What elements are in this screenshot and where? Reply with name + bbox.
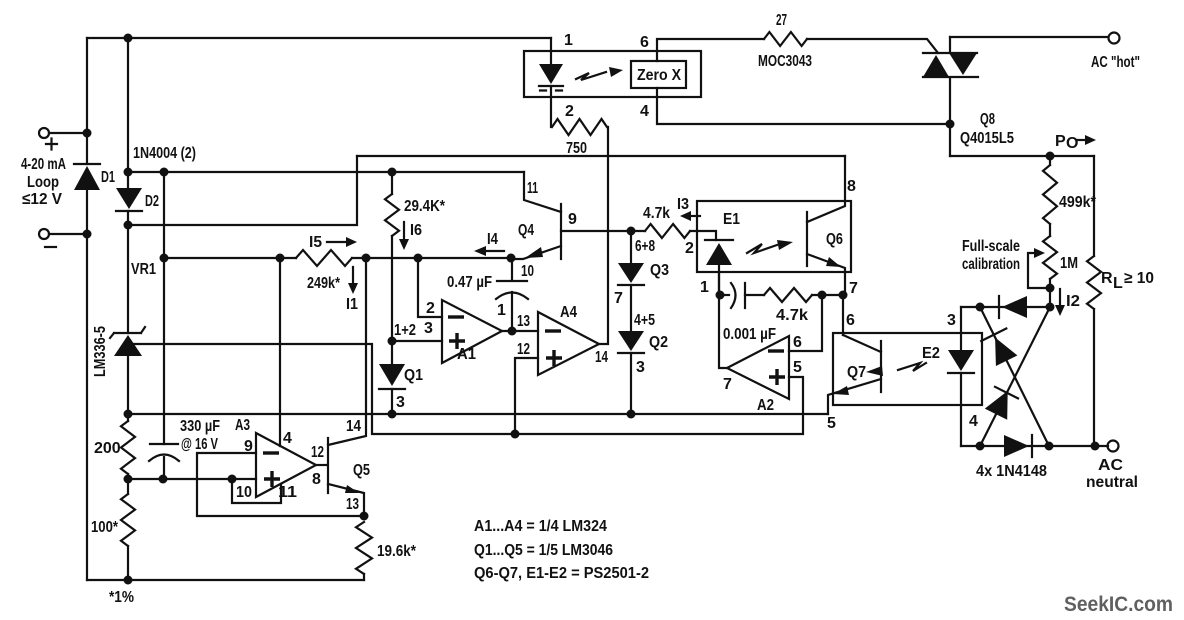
resistor 27 <box>764 32 807 46</box>
wire A1 plus input <box>392 340 442 342</box>
label 4-20 mA Loop <=12 V <box>21 156 66 208</box>
wire 4.7k to E1 pin2 <box>690 231 716 240</box>
svg-text:D1: D1 <box>101 169 115 186</box>
svg-text:AC: AC <box>1098 457 1123 474</box>
svg-text:A3: A3 <box>235 417 250 434</box>
svg-text:Q8: Q8 <box>980 111 995 128</box>
wire E2 pin4 to bridge <box>961 445 980 447</box>
label RL >= 10 <box>1101 270 1154 292</box>
svg-text:I2: I2 <box>1066 293 1080 310</box>
wire A1 minus input drop <box>418 258 442 317</box>
wire E1 pin1 node column / A2 output <box>719 272 727 368</box>
svg-text:12: 12 <box>517 341 530 358</box>
op-amp A4 <box>538 312 599 375</box>
svg-text:4.7k: 4.7k <box>643 205 670 222</box>
wire A3 pin10-11 loop <box>232 479 281 503</box>
svg-text:330 µF: 330 µF <box>180 418 220 435</box>
svg-text:5: 5 <box>827 415 836 432</box>
wire 100 to bottom rail <box>127 546 129 580</box>
label I3 and arrow <box>677 196 700 221</box>
svg-text:7: 7 <box>849 280 858 297</box>
triac Q8 <box>923 37 978 156</box>
wire 27 to triac gate <box>807 39 938 53</box>
capacitor 330uF curved plate <box>149 455 179 462</box>
terminal - (4-20mA loop minus) <box>39 229 87 247</box>
svg-text:1M: 1M <box>1060 255 1078 272</box>
svg-text:14: 14 <box>346 418 361 435</box>
svg-text:4: 4 <box>969 413 978 430</box>
svg-text:3: 3 <box>396 394 405 411</box>
svg-text:1: 1 <box>564 32 573 49</box>
resistor 499k* <box>1043 156 1057 224</box>
wire top +V rail <box>87 37 551 39</box>
svg-text:4-20 mA: 4-20 mA <box>21 156 66 173</box>
op-amp A3 <box>256 433 316 497</box>
pot wiper arrow <box>1028 248 1050 288</box>
wire zener reference to A2+ rail <box>134 344 803 434</box>
svg-text:A2: A2 <box>757 397 774 414</box>
svg-text:200: 200 <box>94 440 121 457</box>
svg-text:≤12 V: ≤12 V <box>22 191 62 208</box>
E2 box <box>833 333 982 405</box>
resistor 29.4K* <box>385 172 399 236</box>
wire zener to 200 resistor <box>127 356 129 421</box>
wire bridge top edge <box>980 306 1050 308</box>
wire bottom rail <box>87 579 364 581</box>
transistor Q5 emitter <box>328 484 364 516</box>
svg-text:A1...A4 = 1/4 LM324: A1...A4 = 1/4 LM324 <box>474 518 607 535</box>
transistor Q1 diode-connected <box>379 341 405 414</box>
MOC LED <box>539 64 563 91</box>
wire D2 to zener VR1 <box>127 211 129 333</box>
svg-text:3: 3 <box>947 312 956 329</box>
svg-text:6: 6 <box>793 334 802 351</box>
svg-text:2: 2 <box>426 300 435 317</box>
svg-text:0.001 µF: 0.001 µF <box>723 326 776 343</box>
transistor Q3 diode-connected <box>618 263 644 285</box>
E1 LED <box>705 240 733 295</box>
svg-text:A1: A1 <box>457 346 476 363</box>
svg-text:Loop: Loop <box>27 174 59 191</box>
svg-text:6+8: 6+8 <box>635 238 655 255</box>
svg-text:I3: I3 <box>677 196 689 213</box>
svg-text:13: 13 <box>517 313 530 330</box>
svg-text:19.6k*: 19.6k* <box>377 543 417 560</box>
E2 light arrow <box>866 363 926 376</box>
resistor 4.7k (Q4 base) <box>645 224 690 238</box>
resistor 19.6k* <box>356 522 372 574</box>
capacitor 0.001uF <box>720 283 764 308</box>
transistor Q4 emitter <box>513 246 561 259</box>
wire left rail down to bottom <box>86 234 88 580</box>
wire y=156 to optocoupler E1 pin8 <box>357 155 845 157</box>
resistor 4.7k (A2 feedback) <box>764 288 812 302</box>
wire A2 minus pin6 drop <box>789 295 822 351</box>
terminal AC neutral <box>1108 441 1119 452</box>
resistor 200 <box>121 421 135 474</box>
svg-text:E1: E1 <box>723 211 740 228</box>
bridge diode diag2 (points up-right) <box>985 387 1018 420</box>
svg-text:8: 8 <box>312 471 321 488</box>
wire A4 plus input route <box>515 358 538 434</box>
svg-text:L: L <box>1113 275 1123 292</box>
wire Q2 to y414 rail <box>630 353 632 414</box>
wire Q3 top <box>630 231 632 263</box>
svg-text:I1: I1 <box>346 296 358 313</box>
bridge diode diag1 (points up-left) <box>981 329 1017 367</box>
wire triac to AC hot <box>950 36 1108 38</box>
svg-text:4: 4 <box>640 103 649 120</box>
transistor Q4 base wire <box>561 230 645 232</box>
capacitor 0.47uF <box>496 258 528 331</box>
transistor Q6 collector pin8 <box>807 156 845 222</box>
svg-text:Full-scale: Full-scale <box>962 238 1020 255</box>
transistor Q6 bar <box>806 212 808 266</box>
svg-text:100*: 100* <box>91 519 119 536</box>
resistor 100* <box>121 494 135 546</box>
svg-text:R: R <box>1101 270 1113 287</box>
transistor Q7 bar <box>880 341 882 392</box>
wire E2 pin3 to bridge <box>961 306 980 308</box>
notes IC equivalences <box>474 518 649 582</box>
svg-text:14: 14 <box>595 349 608 366</box>
svg-text:Q6: Q6 <box>826 231 843 248</box>
svg-text:@ 16 V: @ 16 V <box>181 436 218 453</box>
bridge diode bottom (points right) <box>1004 435 1032 457</box>
wire bridge diagonal TL-BR <box>980 307 1049 446</box>
svg-text:9: 9 <box>568 211 577 228</box>
svg-text:3: 3 <box>424 320 433 337</box>
svg-text:LM336-5: LM336-5 <box>92 326 109 377</box>
wire 4.7k to pins 7/6 <box>812 294 843 296</box>
wire bridge diagonal TR-BL <box>980 307 1050 446</box>
svg-text:I4: I4 <box>487 231 498 248</box>
wire bridge bottom edge <box>980 445 1049 447</box>
wire ground-ish rail y=414 <box>128 413 828 415</box>
svg-text:Q5: Q5 <box>353 462 370 479</box>
label I5 and arrow <box>309 234 357 251</box>
svg-text:neutral: neutral <box>1086 474 1138 491</box>
svg-text:Q3: Q3 <box>650 262 669 279</box>
label I1 and arrow <box>346 267 358 313</box>
wire A3 output to Q5 base <box>316 464 327 466</box>
svg-text:0.47 µF: 0.47 µF <box>447 274 492 291</box>
wire +V rail y=172 <box>128 171 524 173</box>
wire VR1 node y=258 <box>164 257 511 259</box>
svg-text:Q4: Q4 <box>518 222 534 239</box>
wire 200 to 100 resistor <box>127 474 129 494</box>
op-amp A1 <box>442 300 502 363</box>
terminal + (4-20mA loop plus) <box>39 128 87 150</box>
svg-text:6: 6 <box>640 34 649 51</box>
svg-text:499k*: 499k* <box>1059 194 1097 211</box>
wire Po node <box>950 155 1094 157</box>
svg-text:1: 1 <box>700 279 709 296</box>
svg-text:*1%: *1% <box>109 589 134 606</box>
resistor 750 <box>552 119 607 135</box>
svg-text:1: 1 <box>497 302 506 319</box>
svg-text:SeekIC.com: SeekIC.com <box>1064 593 1173 616</box>
svg-text:≥ 10: ≥ 10 <box>1124 270 1154 287</box>
wire A3 pin4 supply drop <box>279 258 281 446</box>
wire MOC pin4 down <box>657 88 950 124</box>
svg-text:4: 4 <box>283 430 292 447</box>
label AC neutral <box>1086 457 1138 491</box>
svg-text:Q1...Q5 = 1/5 LM3046: Q1...Q5 = 1/5 LM3046 <box>474 542 613 559</box>
svg-text:11: 11 <box>527 180 538 197</box>
svg-text:249k*: 249k* <box>307 275 341 292</box>
svg-text:4x 1N4148: 4x 1N4148 <box>976 463 1047 480</box>
resistor RL <box>1087 156 1101 446</box>
svg-text:D2: D2 <box>145 193 159 210</box>
svg-text:750: 750 <box>566 140 587 157</box>
Zero X box <box>631 61 686 88</box>
diode D2 (1N4004) <box>116 188 142 211</box>
svg-text:I5: I5 <box>309 234 322 251</box>
svg-text:27: 27 <box>776 12 787 29</box>
wire A4 output up to 750 <box>599 127 608 344</box>
wire MOC pin1 <box>550 38 552 65</box>
svg-text:13: 13 <box>346 496 359 513</box>
svg-text:I6: I6 <box>410 222 422 239</box>
svg-text:Q6-Q7, E1-E2 = PS2501-2: Q6-Q7, E1-E2 = PS2501-2 <box>474 565 649 582</box>
svg-text:calibration: calibration <box>962 256 1020 273</box>
svg-text:VR1: VR1 <box>131 261 156 278</box>
E1 light arrow <box>747 240 793 253</box>
svg-text:2: 2 <box>685 240 694 257</box>
svg-text:2: 2 <box>565 103 574 120</box>
wire MOC pin6 up <box>657 39 764 61</box>
svg-text:3: 3 <box>636 359 645 376</box>
wire 1M to bridge <box>1049 279 1051 307</box>
transistor Q7 emitter pin5 <box>828 379 881 414</box>
svg-text:7: 7 <box>723 376 732 393</box>
svg-text:9: 9 <box>244 438 253 455</box>
svg-text:5: 5 <box>793 359 802 376</box>
svg-text:4+5: 4+5 <box>634 312 655 329</box>
transistor Q4 bar <box>560 204 562 259</box>
wire Q4 collector pin11 <box>524 172 561 212</box>
svg-text:E2: E2 <box>922 345 940 362</box>
wire x=164 supply drop to cap <box>163 172 165 444</box>
bridge diode top (points left) <box>999 296 1027 318</box>
E2 LED <box>948 307 974 446</box>
transistor Q5 collector <box>328 258 366 445</box>
svg-text:4.7k: 4.7k <box>776 307 808 324</box>
svg-text:A4: A4 <box>560 304 577 321</box>
wire D2 column top <box>127 38 129 188</box>
transistor Q7 collector <box>843 335 881 352</box>
wire Q3 to Q2 <box>630 285 632 331</box>
svg-text:29.4K*: 29.4K* <box>404 198 446 215</box>
wire bridge to AC neutral <box>1049 445 1108 447</box>
svg-text:Q1: Q1 <box>404 367 423 384</box>
wire Q7 collector pin6 drop <box>842 295 844 335</box>
svg-text:6: 6 <box>846 312 855 329</box>
MOC3043 box <box>524 51 701 97</box>
svg-text:Q2: Q2 <box>649 334 668 351</box>
capacitor 330uF plate <box>150 443 178 445</box>
svg-text:10: 10 <box>521 263 534 280</box>
label 330 uF @ 16 V <box>180 418 220 453</box>
MOC light arrow <box>576 67 623 80</box>
label I6 and arrow <box>399 222 422 250</box>
zener VR1 LM336-5 <box>110 327 145 356</box>
wire A1 output to A4 <box>502 330 538 332</box>
svg-text:Zero X: Zero X <box>637 67 681 84</box>
wire loop+ rail y=225 <box>128 156 357 225</box>
svg-text:8: 8 <box>847 178 856 195</box>
label Po and arrow <box>1055 133 1096 152</box>
svg-text:7: 7 <box>614 290 623 307</box>
svg-text:Q7: Q7 <box>847 364 866 381</box>
label I2 and arrow <box>1055 289 1080 316</box>
svg-text:12: 12 <box>311 444 324 461</box>
svg-text:11: 11 <box>278 484 297 501</box>
op-amp A2 (points left) <box>727 336 789 399</box>
label Full-scale calibration <box>962 238 1020 273</box>
wire left rail top (+ terminal to top rail) <box>86 38 88 133</box>
svg-text:MOC3043: MOC3043 <box>758 53 812 70</box>
wire A3 pin9 feedback route <box>197 453 364 516</box>
label I4 and arrow <box>474 231 504 256</box>
diode D1 (1N4004) <box>74 164 100 190</box>
transistor Q2 diode-connected <box>618 331 644 353</box>
wire D1 bottom segment <box>86 190 88 234</box>
wire 499k to 1M <box>1049 224 1051 236</box>
svg-text:1+2: 1+2 <box>394 322 416 339</box>
transistor Q5 bar <box>327 438 329 493</box>
svg-text:Q4015L5: Q4015L5 <box>960 130 1014 147</box>
svg-text:P: P <box>1055 133 1066 150</box>
svg-text:1N4004 (2): 1N4004 (2) <box>133 145 196 162</box>
resistor 249k* <box>296 250 352 266</box>
E1 box <box>697 201 851 272</box>
wire 19.6k to bottom rail <box>363 574 365 580</box>
wire D1 top segment <box>86 133 88 164</box>
wire 29.4K down to A1+ node <box>391 236 393 341</box>
wire MOC pin2 to 750 <box>550 86 552 127</box>
svg-text:10: 10 <box>236 484 252 501</box>
terminal AC hot <box>1109 33 1120 44</box>
wire y=479 (A3 + input rail) <box>128 478 256 480</box>
transistor Q6 emitter pin7 <box>807 254 845 295</box>
wire cap to y=479 wire <box>163 457 165 479</box>
svg-text:AC "hot": AC "hot" <box>1091 54 1140 71</box>
svg-text:O: O <box>1066 135 1078 152</box>
potentiometer 1M <box>1043 236 1057 279</box>
